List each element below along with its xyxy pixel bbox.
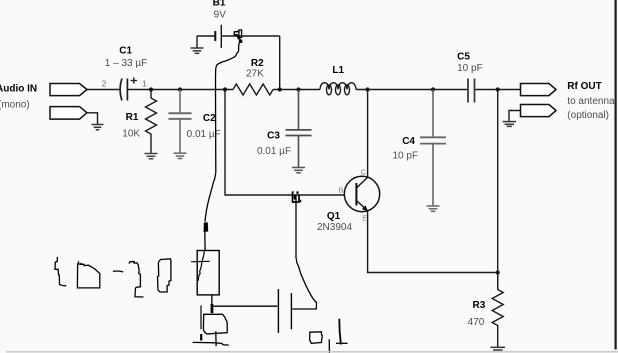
inductor L1 — [320, 83, 356, 95]
hand cap plate 1 — [277, 289, 279, 333]
wire J4 to ground — [509, 111, 521, 122]
svg-text:9V: 9V — [214, 10, 227, 21]
svg-text:(mono): (mono) — [0, 100, 30, 111]
Q1 base bar — [355, 183, 357, 206]
ground R3 — [491, 347, 506, 350]
hand rise to base wire — [296, 259, 316, 310]
hand tick below potato — [215, 331, 217, 346]
hand vertical to base wire — [295, 196, 297, 259]
svg-text:27K: 27K — [246, 68, 264, 79]
hand scribble 0 — [158, 259, 171, 292]
node base-loop top — [223, 87, 227, 91]
hand scribble 2 — [129, 262, 143, 298]
svg-text:0.01 µF: 0.01 µF — [257, 146, 291, 157]
hand cross in rectangle — [191, 251, 210, 281]
svg-text:E: E — [362, 215, 367, 222]
hand blob connector — [204, 223, 208, 232]
wire down to R3 — [497, 90, 499, 290]
wire main: C1 to R2 — [127, 89, 233, 91]
hand left vertical thick — [200, 334, 202, 341]
hand small square — [310, 332, 323, 344]
hand potato blob — [203, 314, 227, 334]
hand bottom line — [193, 342, 229, 345]
svg-text:C1: C1 — [119, 46, 132, 57]
ground B1 — [191, 48, 204, 53]
capacitor C3 — [286, 90, 312, 168]
wire J2 to ground — [87, 113, 98, 124]
hand blob 2 — [211, 304, 214, 313]
transistor Q1 circle — [344, 176, 379, 211]
svg-text:10 pF: 10 pF — [393, 151, 419, 162]
hand scribble t — [55, 257, 66, 286]
resistor R1 — [146, 90, 157, 154]
ground J2 — [92, 125, 104, 130]
bottom gray border — [6, 351, 618, 353]
connector J4 Rf OUT bottom — [521, 105, 557, 117]
node battery/R2 — [278, 87, 282, 91]
hand stem below rectangle — [211, 295, 213, 305]
capacitor C2 — [169, 90, 192, 153]
svg-text:Audio IN: Audio IN — [0, 83, 37, 94]
node at C1/R1 — [149, 87, 153, 91]
svg-text:C: C — [361, 169, 366, 176]
svg-text:C5: C5 — [457, 52, 470, 63]
wire main: L1 to C5 — [356, 89, 468, 91]
hand left vertical — [200, 305, 202, 329]
right black border — [614, 0, 616, 350]
wire collector down — [367, 90, 369, 178]
svg-text:C4: C4 — [402, 136, 415, 147]
svg-text:C2: C2 — [203, 113, 216, 124]
hand tick 2 — [328, 339, 330, 353]
hand squiggle battery down — [216, 43, 240, 173]
svg-text:L1: L1 — [332, 65, 344, 76]
capacitor C4 — [420, 90, 446, 206]
hand cap plate 2 — [290, 293, 292, 329]
svg-text:2: 2 — [102, 79, 107, 88]
ground C3 — [292, 168, 305, 173]
svg-text:R3: R3 — [473, 300, 486, 311]
svg-text:R1: R1 — [126, 112, 139, 123]
hand dagger vertical — [339, 319, 341, 345]
svg-text:470: 470 — [468, 317, 485, 328]
connector J1 Audio IN top — [50, 84, 87, 96]
node C5/Rf — [496, 87, 500, 91]
svg-text:B1: B1 — [213, 0, 226, 9]
svg-text:to antenna: to antenna — [567, 96, 615, 107]
C1 plus sign — [131, 77, 137, 83]
hand dagger crossbar — [336, 342, 348, 344]
svg-text:B: B — [339, 188, 344, 195]
hand rectangle (mic) — [197, 251, 219, 295]
resistor R2 — [233, 84, 273, 95]
wire main: C5 to Rf connector — [475, 89, 521, 91]
wire base loop down — [225, 90, 344, 196]
connector J2 Audio IN bottom — [50, 107, 87, 120]
hand scribble D — [77, 261, 99, 288]
ground R1 — [145, 154, 158, 159]
wire battery to R2 node — [279, 36, 281, 90]
ground C4 — [427, 206, 440, 211]
battery B1 — [197, 25, 280, 48]
resistor R3 — [492, 273, 503, 348]
node C4 — [431, 87, 435, 91]
hand wire cap right — [292, 308, 316, 310]
hand diagonal to blob — [205, 173, 216, 222]
svg-text:10 pF: 10 pF — [457, 63, 483, 74]
Q1 emitter arrow — [362, 205, 368, 211]
connector J3 Rf OUT top — [521, 84, 557, 96]
capacitor C5 — [468, 79, 475, 103]
svg-text:C3: C3 — [267, 131, 280, 142]
Q1 collector diagonal — [356, 177, 367, 188]
svg-text:Q1: Q1 — [327, 211, 341, 222]
wire emitter down and right — [368, 211, 498, 273]
capacitor C1 — [120, 79, 127, 101]
Q1 emitter diagonal — [356, 201, 367, 211]
node at C2 — [178, 87, 182, 91]
svg-text:(optional): (optional) — [567, 110, 609, 121]
svg-text:Rf OUT: Rf OUT — [567, 81, 601, 92]
ground C2 — [174, 153, 187, 158]
hand N scribble on base wire — [293, 191, 301, 202]
svg-text:2N3904: 2N3904 — [317, 222, 352, 233]
hand wire to rectangle — [204, 231, 206, 251]
hand dash — [113, 270, 123, 273]
ground J4 — [503, 122, 516, 127]
hand switch scribble at battery — [234, 30, 242, 43]
svg-text:10K: 10K — [122, 129, 140, 140]
svg-text:1 – 33 µF: 1 – 33 µF — [105, 58, 147, 69]
wire main: connector1 to C1 — [87, 89, 120, 91]
svg-text:1: 1 — [142, 79, 147, 88]
hand wire right — [213, 305, 277, 307]
node C3 — [296, 87, 300, 91]
node emitter/R3 — [496, 270, 500, 274]
wire main: R2 to L1 — [273, 89, 320, 91]
node collector — [366, 87, 370, 91]
